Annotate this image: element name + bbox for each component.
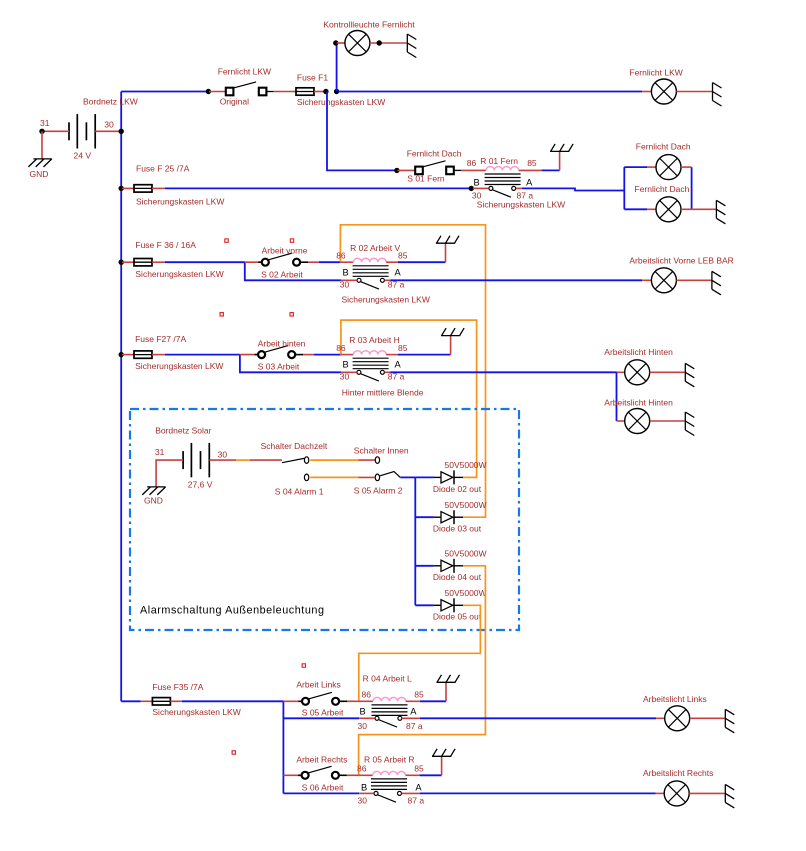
- relay R05 contact: [378, 795, 396, 802]
- wire R05 contact feed: [283, 792, 359, 794]
- node F1 output / lamp branch: [334, 89, 339, 94]
- marker anchor S05 Arbeit: [302, 664, 305, 667]
- svg-text:S 03 Arbeit: S 03 Arbeit: [258, 362, 300, 372]
- relay R02 coil 86 stub: [340, 261, 353, 263]
- svg-text:R 02 Arbeit V: R 02 Arbeit V: [350, 243, 400, 253]
- svg-text:S 05 Arbeit: S 05 Arbeit: [302, 708, 344, 718]
- battery G1 Bordnetz LKW: [69, 114, 95, 148]
- svg-text:Original: Original: [220, 97, 249, 107]
- svg-text:27,6 V: 27,6 V: [188, 480, 213, 490]
- wire stub to lamp Kontrollleuchte: [337, 42, 345, 44]
- wire lamp Vorne to ground: [676, 279, 711, 281]
- relay R03 core: [353, 358, 389, 369]
- svg-text:S 06 Arbeit: S 06 Arbeit: [302, 783, 344, 793]
- svg-text:Kontrollleuchte Fernlicht: Kontrollleuchte Fernlicht: [323, 20, 415, 30]
- diode D02: [434, 476, 441, 478]
- wire fuse F1 output: [314, 91, 326, 93]
- node before switch S01: [394, 168, 399, 173]
- switch S02 Arbeit (Arbeit vorne): [269, 253, 292, 260]
- relay R05 core: [371, 779, 407, 790]
- wire R05 pin87a stub: [402, 792, 420, 794]
- ground (Kontrollleuchte): [407, 34, 416, 58]
- ground (relay R05 85): [441, 756, 443, 775]
- svg-text:A: A: [526, 178, 533, 188]
- wire R02 85 stub: [386, 261, 398, 263]
- svg-text:Sicherungskasten LKW: Sicherungskasten LKW: [136, 197, 224, 207]
- wire orange net diode04 to R05 86: [359, 566, 486, 776]
- lamp H4 Fernlicht Dach bottom: [656, 197, 681, 222]
- wire lamp Hinten2 to ground: [650, 420, 685, 422]
- lamp H2 Fernlicht LKW: [651, 79, 676, 104]
- svg-text:24 V: 24 V: [74, 151, 92, 161]
- lamp H6 Arbeitslicht Hinten top: [625, 360, 650, 385]
- svg-text:86: 86: [336, 343, 346, 353]
- wire branch down to R02 contact: [245, 262, 341, 280]
- svg-text:B: B: [360, 707, 366, 717]
- svg-text:Fuse F 36 / 16A: Fuse F 36 / 16A: [135, 240, 196, 250]
- relay R02 Arbeit V coil: [353, 258, 386, 262]
- ground (Arbeitslicht Links): [725, 709, 734, 733]
- svg-text:S 05 Alarm 2: S 05 Alarm 2: [354, 486, 403, 496]
- svg-text:30: 30: [358, 721, 368, 731]
- wire lamp Rechts to ground: [689, 792, 725, 794]
- diode D03: [434, 516, 441, 518]
- svg-text:B: B: [361, 783, 367, 793]
- svg-text:Sicherungskasten LKW: Sicherungskasten LKW: [342, 295, 430, 305]
- node fuse F36 on bus: [119, 260, 124, 265]
- wire riser to Kontrollleuchte: [336, 43, 338, 92]
- svg-text:A: A: [395, 360, 402, 370]
- alarm circuit boundary box: [130, 409, 519, 630]
- relay R01 Fern coil: [486, 166, 519, 170]
- wire lamp Kontrollleuchte to ground: [370, 42, 407, 44]
- wire Dach lamp bracket right vertical: [691, 167, 693, 209]
- wire solar 31 stub: [156, 460, 183, 487]
- wire S06 output red: [347, 774, 359, 776]
- svg-text:Sicherungskasten LKW: Sicherungskasten LKW: [477, 200, 565, 210]
- ground (Fernlicht LKW): [713, 83, 722, 107]
- wire fuse F27 output: [152, 354, 165, 356]
- wire solar net orange segment: [236, 459, 250, 461]
- ground GND chassis (battery LKW): [28, 159, 51, 167]
- diode D05: [434, 604, 441, 606]
- wire S03 output red: [303, 354, 314, 356]
- switch S05 Arbeit (Arbeit Links): [309, 692, 332, 699]
- svg-text:Arbeit hinten: Arbeit hinten: [258, 339, 306, 349]
- wire R02 pin87a stub: [385, 279, 391, 281]
- svg-text:B: B: [474, 178, 480, 188]
- wire fuse F25 output: [152, 187, 165, 189]
- relay R01 core: [485, 174, 521, 185]
- svg-text:50V5000W: 50V5000W: [445, 500, 487, 510]
- wire diode05 anode stub: [415, 604, 433, 606]
- svg-text:85: 85: [398, 251, 408, 261]
- wire R04 85 stub: [406, 700, 420, 702]
- svg-text:Sicherungskasten LKW: Sicherungskasten LKW: [297, 97, 385, 107]
- wire to S04 blade: [250, 459, 282, 461]
- marker anchor S02 b: [290, 239, 293, 242]
- wire R05 85 stub: [406, 774, 420, 776]
- relay R04 coil 86 stub: [359, 700, 373, 702]
- node relay R01 pin 30: [469, 186, 474, 191]
- svg-text:Fuse F 25 /7A: Fuse F 25 /7A: [136, 164, 190, 174]
- wire R01 85 blue segment: [542, 169, 560, 171]
- wire bus to fuse F36: [122, 261, 134, 263]
- svg-text:Diode 04 out: Diode 04 out: [433, 572, 482, 582]
- wire R02 pin30 stub: [341, 279, 357, 281]
- wire R03 pin30 stub: [341, 371, 357, 373]
- wire stub to lamp Fernlicht LKW: [642, 91, 651, 93]
- wire F25 long run to relay R01 contact: [165, 187, 472, 189]
- wire diode04 anode stub: [415, 565, 433, 567]
- wire switch Original to fuse F1: [274, 91, 296, 93]
- wire R04 output to lamp Links: [420, 717, 656, 719]
- svg-text:31: 31: [155, 447, 165, 457]
- svg-text:50V5000W: 50V5000W: [445, 588, 487, 598]
- wire fuse F36 output: [152, 261, 165, 263]
- svg-text:B: B: [343, 360, 349, 370]
- wire orange net diode05 to R04 86: [359, 605, 481, 701]
- wire bus corner to fuse F35: [121, 700, 140, 702]
- svg-text:Fuse F27 /7A: Fuse F27 /7A: [135, 334, 186, 344]
- wire bus to fuse F27: [122, 354, 134, 356]
- wire S04 bottom to S05 bottom red: [359, 476, 375, 478]
- switch S00 Original Fernlicht LKW: [234, 82, 257, 88]
- svg-text:Arbeitslicht Links: Arbeitslicht Links: [643, 694, 707, 704]
- marker anchor S03 b: [290, 313, 293, 316]
- wire R03 output to lamps Hinten: [390, 371, 616, 373]
- fuse F27: [134, 351, 152, 358]
- svg-text:Arbeit Rechts: Arbeit Rechts: [296, 755, 347, 765]
- svg-text:Fuse F35 /7A: Fuse F35 /7A: [152, 682, 203, 692]
- lamp H1 Kontrollleuchte Fernlicht: [345, 31, 370, 56]
- svg-text:85: 85: [414, 690, 424, 700]
- wire R04 85 blue segment: [420, 700, 446, 702]
- battery G2 Bordnetz Solar: [183, 443, 209, 477]
- wire solar 30 stub: [209, 459, 236, 461]
- svg-text:86: 86: [362, 690, 372, 700]
- lamp H7 Arbeitslicht Hinten bottom: [625, 409, 650, 434]
- wire S04 top to S05 top red: [359, 459, 375, 461]
- svg-text:S 01 Fern: S 01 Fern: [407, 174, 445, 184]
- node F1 output / S01 branch: [323, 89, 328, 94]
- svg-text:Fernlicht Dach: Fernlicht Dach: [636, 142, 691, 152]
- wire R02 85 blue segment: [398, 261, 446, 263]
- svg-text:A: A: [395, 268, 402, 278]
- wire F35 to S05 branch: [182, 700, 284, 702]
- wire S04 bottom to S05 bottom orange: [310, 476, 358, 478]
- wire R01 pin30 stub: [473, 187, 489, 189]
- node lamp Kontrollleuchte left: [333, 40, 338, 45]
- relay R03 Arbeit H coil: [353, 351, 386, 355]
- lamp H8 Arbeitslicht Links: [665, 706, 690, 731]
- switch S05 Alarm 2 terminals: [375, 457, 379, 464]
- wire R04 pin30 stub: [359, 717, 375, 719]
- marker anchor S02 a: [225, 239, 228, 242]
- wire GND stub: [41, 131, 43, 159]
- wire orange net diode03 to R02 86 (loop): [340, 225, 485, 517]
- wire R05 pin30 stub: [359, 792, 374, 794]
- wire F36 to S02 branch: [165, 261, 245, 263]
- svg-text:Diode 05 out: Diode 05 out: [433, 612, 482, 622]
- wire S01 to relay R01 coil 86: [461, 169, 486, 171]
- svg-text:R 04 Arbeit L: R 04 Arbeit L: [363, 674, 412, 684]
- relay R04 Arbeit L coil: [373, 697, 406, 701]
- svg-text:B: B: [343, 268, 349, 278]
- node lamp Kontrollleuchte right: [377, 40, 382, 45]
- wire R03 pin87a stub: [385, 371, 391, 373]
- ground (Fernlicht Dach): [716, 200, 725, 224]
- wire diode feed vertical: [414, 477, 416, 605]
- svg-text:S 04 Alarm 1: S 04 Alarm 1: [275, 487, 324, 497]
- relay R03 coil 86 stub: [341, 354, 354, 356]
- wire R02 output to lamp Vorne: [390, 279, 642, 281]
- svg-text:87 a: 87 a: [408, 796, 425, 806]
- ground (relay R02 85): [445, 243, 447, 262]
- ground (Arbeitslicht Hinten top): [685, 363, 694, 387]
- switch S04 Alarm 1 terminals: [304, 457, 308, 464]
- node fuse F25 on bus: [119, 186, 124, 191]
- wire R05 output to lamp Rechts: [420, 792, 656, 794]
- svg-text:30: 30: [218, 450, 228, 460]
- wire lamp Links to ground: [690, 717, 725, 719]
- wire lamp Hinten1 to ground: [650, 371, 685, 373]
- wire diode03 anode stub: [415, 516, 433, 518]
- ground (Arbeitslicht Vorne): [712, 271, 721, 295]
- wire R01 85 stub: [519, 169, 542, 171]
- wire stub lamp Dach bottom left: [624, 208, 647, 210]
- wire to fuse F35: [141, 700, 153, 702]
- wire bus top horizontal to switch Original: [121, 91, 209, 93]
- wire R04 pin87a stub: [402, 717, 420, 719]
- relay R01 contact: [493, 190, 511, 197]
- ground GND chassis (battery Solar): [142, 487, 165, 495]
- wire R04 contact feed: [283, 717, 359, 719]
- svg-text:30: 30: [104, 120, 114, 130]
- svg-text:86: 86: [467, 158, 477, 168]
- ground (Arbeitslicht Hinten bottom): [685, 412, 694, 436]
- svg-text:Arbeit Links: Arbeit Links: [296, 680, 340, 690]
- svg-text:Diode 02 out: Diode 02 out: [433, 484, 482, 494]
- wire stub to lamp Hinten 1: [617, 371, 625, 373]
- wire stub to lamp Rechts: [656, 792, 665, 794]
- wire stub lamp Dach top left: [624, 166, 647, 168]
- switch S04 Alarm 1 blade: [282, 458, 304, 462]
- wire R01 output to Fernlicht Dach lamps: [522, 188, 625, 190]
- svg-text:Schalter Dachzelt: Schalter Dachzelt: [261, 441, 328, 451]
- wire lamp Fernlicht LKW to ground: [676, 91, 712, 93]
- svg-text:31: 31: [40, 118, 50, 128]
- switch S03 Arbeit (Arbeit hinten): [265, 346, 288, 353]
- wire to S01: [398, 169, 416, 171]
- svg-text:Schalter Innen: Schalter Innen: [354, 446, 409, 456]
- svg-text:Arbeitslicht Hinten: Arbeitslicht Hinten: [604, 398, 673, 408]
- svg-text:Arbeit vorne: Arbeit vorne: [262, 246, 308, 256]
- node battery 30 on bus: [119, 129, 124, 134]
- wire stub to lamp Vorne: [642, 279, 651, 281]
- relay R04 core: [372, 705, 408, 716]
- marker anchor S03 a: [220, 313, 223, 316]
- wire bus to fuse F25: [122, 187, 134, 189]
- switch S05 Alarm 2 blade: [380, 472, 400, 478]
- svg-text:Hinter mittlere Blende: Hinter mittlere Blende: [342, 388, 424, 398]
- node battery 31: [39, 129, 44, 134]
- svg-text:86: 86: [336, 251, 346, 261]
- ground (relay R01 85): [559, 151, 561, 170]
- wire to switch Original: [209, 91, 226, 93]
- svg-text:Sicherungskasten LKW: Sicherungskasten LKW: [152, 707, 240, 717]
- marker anchor S06 Arbeit: [232, 751, 235, 754]
- svg-text:Fuse F1: Fuse F1: [297, 73, 328, 83]
- svg-text:Fernlicht Dach: Fernlicht Dach: [407, 149, 462, 159]
- svg-text:85: 85: [398, 343, 408, 353]
- svg-text:GND: GND: [30, 169, 49, 179]
- wire R05 85 blue segment: [420, 774, 442, 776]
- wire S05 output blue: [400, 476, 415, 478]
- relay R03 contact: [361, 374, 379, 381]
- fuse F36: [134, 259, 152, 266]
- wire R03 85 blue segment: [398, 354, 451, 356]
- relay R02 core: [353, 266, 389, 277]
- wire branch down to R05 contact row: [282, 701, 284, 793]
- diode D04: [434, 565, 441, 567]
- svg-text:A: A: [415, 783, 422, 793]
- svg-text:R 03 Arbeit H: R 03 Arbeit H: [349, 335, 400, 345]
- svg-text:Alarmschaltung Außenbeleuchtun: Alarmschaltung Außenbeleuchtung: [140, 605, 325, 617]
- svg-text:30: 30: [358, 796, 368, 806]
- ground (relay R04 85): [445, 682, 447, 701]
- wire diode02 anode stub: [415, 476, 433, 478]
- fuse F25: [134, 185, 152, 192]
- svg-text:Bordnetz Solar: Bordnetz Solar: [155, 426, 211, 436]
- relay R04 contact: [379, 720, 397, 727]
- wire S02 output red: [308, 261, 319, 263]
- wire S05 Arbeit output red: [347, 700, 359, 702]
- wire fuse F35 output: [170, 700, 182, 702]
- wire drop from F1 to S01: [327, 92, 396, 171]
- switch S01 Fern: [423, 161, 446, 167]
- wire branch down to R03 contact: [240, 355, 341, 373]
- svg-text:R 01 Fern: R 01 Fern: [480, 156, 518, 166]
- lamp H3 Fernlicht Dach top: [656, 155, 681, 180]
- wire orange net diode02 to R03 86 (loop): [341, 320, 477, 477]
- wire to S03: [240, 354, 258, 356]
- svg-text:85: 85: [414, 764, 424, 774]
- wire S03 output blue to R03 86: [314, 354, 341, 356]
- ground (relay R03 85): [450, 336, 452, 355]
- wire Dach lamp bracket left vertical: [623, 167, 625, 209]
- svg-text:Bordnetz LKW: Bordnetz LKW: [83, 97, 138, 107]
- svg-text:Sicherungskasten LKW: Sicherungskasten LKW: [135, 361, 223, 371]
- wire battery 31 stub: [44, 130, 69, 132]
- relay R05 coil 86 stub: [359, 774, 373, 776]
- wire R03 85 stub: [386, 354, 398, 356]
- fuse F35: [152, 698, 170, 705]
- switch S06 Arbeit (Arbeit Rechts): [309, 766, 332, 773]
- wire to S05 Arbeit: [283, 700, 301, 702]
- svg-text:Fernlicht LKW: Fernlicht LKW: [218, 67, 271, 77]
- svg-text:Fernlicht LKW: Fernlicht LKW: [629, 68, 682, 78]
- wire F1 output to lamp Fernlicht LKW: [338, 91, 642, 93]
- lamp H5 Arbeitslicht Vorne LEB BAR: [651, 268, 676, 293]
- svg-text:87 a: 87 a: [406, 721, 423, 731]
- svg-text:50V5000W: 50V5000W: [445, 549, 487, 559]
- svg-text:Arbeitslicht Hinten: Arbeitslicht Hinten: [604, 347, 673, 357]
- wire F27 to S03 branch: [165, 354, 240, 356]
- svg-text:S 02 Arbeit: S 02 Arbeit: [261, 270, 303, 280]
- svg-text:86: 86: [357, 764, 367, 774]
- wire stub to lamp Hinten 2: [617, 420, 625, 422]
- wire main 24V bus vertical: [120, 92, 122, 702]
- relay R05 Arbeit R coil: [373, 771, 406, 775]
- svg-text:R 05 Arbeit R: R 05 Arbeit R: [364, 755, 415, 765]
- wire to S02: [245, 261, 262, 263]
- wire S02 output blue to R02 86: [319, 261, 341, 263]
- wire R01 pin87a stub: [516, 187, 522, 189]
- lamp H9 Arbeitslicht Rechts: [664, 781, 689, 806]
- svg-text:Fernlicht Dach: Fernlicht Dach: [635, 184, 690, 194]
- wire stub lamp Dach top right: [681, 166, 692, 168]
- svg-text:50V5000W: 50V5000W: [445, 460, 487, 470]
- svg-text:Diode 03 out: Diode 03 out: [433, 524, 482, 534]
- wire S04 top to S05 top orange: [310, 459, 358, 461]
- ground (Arbeitslicht Rechts): [725, 784, 734, 808]
- wire stub to lamp Links: [656, 717, 665, 719]
- svg-text:Sicherungskasten LKW: Sicherungskasten LKW: [135, 269, 223, 279]
- svg-text:Arbeitslicht Vorne LEB BAR: Arbeitslicht Vorne LEB BAR: [629, 256, 733, 266]
- node before switch Original: [206, 89, 211, 94]
- relay R02 contact: [361, 282, 379, 289]
- wire to S06 Arbeit: [283, 774, 301, 776]
- svg-text:A: A: [410, 707, 417, 717]
- fuse F1: [296, 88, 314, 95]
- svg-text:GND: GND: [144, 496, 163, 506]
- wire battery 30 stub: [95, 130, 119, 132]
- svg-text:Arbeitslicht Rechts: Arbeitslicht Rechts: [643, 768, 713, 778]
- svg-text:85: 85: [527, 158, 537, 168]
- node fuse F27 on bus: [119, 352, 124, 357]
- wire drop to lamp Hinten 2: [616, 372, 618, 421]
- wire lamp Dach bottom to ground: [681, 208, 716, 210]
